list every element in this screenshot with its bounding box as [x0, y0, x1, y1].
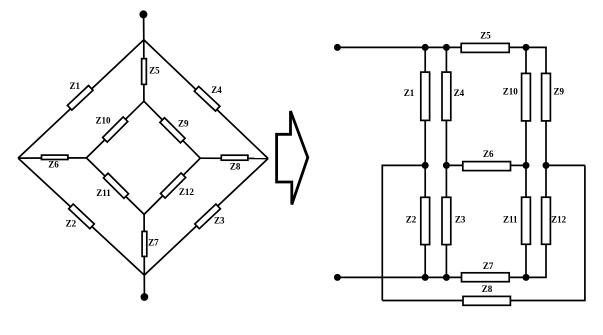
wire inner edge IR-IB: [144, 158, 200, 214]
wire outer edge T-L: [18, 40, 144, 158]
wire middle-right segment to right drop: [546, 164, 585, 166]
resistor Z1 (bridge): [67, 86, 93, 111]
wire Z1 bottom lead: [424, 120, 426, 165]
wire top terminal stem: [143, 14, 145, 39]
resistor Z8 (ladder): [463, 296, 510, 305]
svg-text:Z6: Z6: [48, 159, 59, 169]
resistor Z7 (ladder): [462, 273, 510, 282]
svg-text:Z9: Z9: [178, 119, 189, 129]
wire outer edge T-R: [144, 40, 268, 159]
wire Z8 branch IR-R: [200, 157, 268, 159]
block transformation arrow: [277, 111, 308, 205]
wire Z7 right lead up to Z12: [509, 244, 546, 277]
resistor Z10 (ladder): [522, 73, 531, 121]
resistor Z8 (bridge): [221, 155, 248, 160]
node Z4 top junction: [443, 44, 450, 51]
bottom terminal node: [141, 293, 149, 301]
resistor Z4 (ladder): [442, 72, 451, 120]
wire Z4 top lead: [445, 47, 447, 72]
wire inner edge IL-IB: [86, 158, 144, 215]
svg-text:Z4: Z4: [211, 85, 222, 95]
svg-text:Z7: Z7: [483, 261, 494, 271]
svg-text:Z5: Z5: [149, 66, 160, 76]
resistor Z3 (bridge): [195, 204, 221, 229]
wire Z8 left lead: [382, 300, 463, 302]
resistor Z7 (bridge): [142, 231, 147, 256]
wire bottom terminal stem: [143, 275, 145, 297]
wire inner edge IT-IR: [144, 101, 200, 158]
svg-text:Z1: Z1: [404, 88, 415, 98]
svg-text:Z11: Z11: [96, 188, 111, 198]
wire Z6 branch L-IL: [18, 157, 86, 159]
resistor Z11 (ladder): [522, 197, 531, 244]
svg-text:Z1: Z1: [69, 81, 80, 91]
svg-text:Z8: Z8: [230, 161, 241, 171]
wire Z9 bottom lead: [545, 121, 547, 165]
wire Z2 top lead: [424, 165, 426, 197]
resistor Z12 (bridge): [161, 173, 186, 198]
svg-text:Z6: Z6: [483, 149, 494, 159]
svg-text:Z8: Z8: [482, 284, 493, 294]
node Z2 bottom junction: [422, 274, 429, 281]
resistor Z3 (ladder): [442, 197, 451, 244]
wire Z6 left lead: [446, 164, 462, 166]
resistor Z12 (ladder): [542, 197, 551, 244]
node inner-right junction: [543, 162, 550, 169]
svg-text:Z7: Z7: [148, 238, 159, 248]
resistor Z5 (bridge): [142, 59, 147, 85]
resistor Z2 (bridge): [69, 204, 95, 229]
resistor Z9 (ladder): [542, 73, 551, 121]
resistor Z10 (bridge): [103, 117, 128, 142]
wire Z5 branch T-IT: [143, 40, 145, 101]
svg-text:Z5: Z5: [480, 31, 491, 41]
wire outer edge R-B: [144, 159, 268, 276]
resistor Z11 (bridge): [103, 173, 128, 198]
wire Z3 bottom lead: [445, 245, 447, 278]
node Z1/Z2 junction: [422, 162, 429, 169]
wire Z6 right lead: [511, 164, 527, 166]
top terminal node: [139, 10, 147, 18]
top-left terminal node: [334, 44, 341, 51]
resistor Z5 (ladder): [461, 43, 509, 52]
svg-text:Z10: Z10: [503, 87, 519, 97]
svg-text:Z12: Z12: [551, 215, 567, 225]
bottom-left terminal node: [334, 274, 341, 281]
resistor Z6 (ladder): [463, 162, 511, 171]
wire Z3 top lead: [445, 165, 447, 197]
node Z1 top junction: [422, 44, 429, 51]
wire Z8 right lead with right riser: [510, 165, 585, 300]
wire top rail: [337, 46, 461, 48]
resistor Z6 (bridge): [42, 155, 68, 159]
wire Z10 bottom lead: [525, 121, 527, 165]
node inner-top junction: [523, 44, 530, 51]
svg-text:Z4: Z4: [454, 88, 465, 98]
resistor Z2 (ladder): [421, 197, 430, 244]
wire middle-left segment with left drop: [382, 165, 425, 300]
resistor Z9 (bridge): [160, 118, 185, 143]
node Z3 bottom junction: [443, 274, 450, 281]
svg-text:Z11: Z11: [503, 215, 518, 225]
wire Z10 top lead: [525, 47, 527, 73]
resistor Z4 (bridge): [194, 86, 220, 111]
svg-text:Z12: Z12: [179, 187, 195, 197]
wire Z1 top lead: [424, 47, 426, 72]
resistor Z1 (ladder): [421, 72, 430, 120]
svg-text:Z3: Z3: [455, 215, 466, 225]
node Z4/Z3 junction: [443, 162, 450, 169]
node inner-left junction: [523, 162, 530, 169]
wire Z11 bottom lead: [525, 244, 527, 277]
wire Z12 top lead: [545, 165, 547, 197]
wire Z11 top lead: [525, 165, 527, 197]
svg-text:Z2: Z2: [406, 215, 417, 225]
wire outer edge L-B: [18, 158, 144, 275]
svg-text:Z9: Z9: [553, 87, 564, 97]
svg-text:Z2: Z2: [66, 218, 77, 228]
wire Z2 bottom lead: [424, 245, 426, 278]
wire inner edge IT-IL: [86, 101, 143, 158]
wire Z5 to Z9/Z10 corner: [509, 47, 546, 73]
svg-text:Z3: Z3: [214, 216, 225, 226]
node inner-bottom junction: [523, 274, 530, 281]
wire Z4 bottom lead: [445, 120, 447, 165]
wire bottom rail: [337, 276, 461, 278]
wire Z7 branch IB-B: [143, 214, 145, 275]
svg-text:Z10: Z10: [95, 115, 111, 125]
